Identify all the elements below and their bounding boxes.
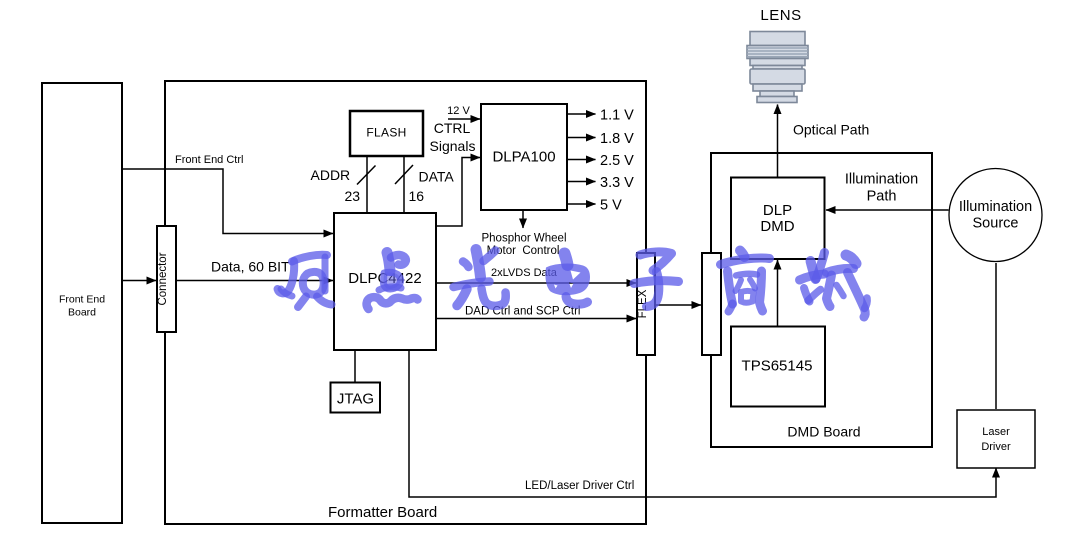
wire 3.3V output bbox=[566, 181, 596, 183]
bus slash ADDR bbox=[357, 166, 376, 185]
wire FLEX to DMD connector bbox=[655, 304, 701, 306]
svg-text:Front End: Front End bbox=[59, 294, 105, 306]
block DLP DMD bbox=[731, 178, 825, 260]
wire CTRL signals DLPC4422 to DLPA100 bbox=[436, 158, 480, 227]
svg-text:5 V: 5 V bbox=[600, 198, 622, 214]
wire LED/Laser Driver Ctrl bbox=[409, 350, 996, 497]
block Front End Board bbox=[42, 83, 122, 523]
wire JTAG bbox=[354, 350, 356, 382]
connector FLEX bbox=[637, 253, 655, 355]
svg-text:Illumination: Illumination bbox=[959, 199, 1032, 215]
block Laser Driver bbox=[957, 410, 1035, 468]
svg-text:DLPA100: DLPA100 bbox=[492, 149, 555, 166]
watermark char cheng bbox=[800, 253, 868, 318]
svg-text:Illumination: Illumination bbox=[845, 172, 918, 188]
bus slash DATA bbox=[395, 165, 413, 184]
wire DATA bus bbox=[403, 156, 405, 213]
wire 2.5V output bbox=[566, 159, 596, 161]
watermark 顶点光电子商城 bbox=[278, 250, 868, 318]
wire 1.8V output bbox=[566, 137, 596, 139]
watermark char guang bbox=[454, 250, 506, 306]
svg-text:Connector: Connector bbox=[157, 252, 169, 305]
svg-text:3.3 V: 3.3 V bbox=[600, 175, 634, 191]
svg-text:DLP: DLP bbox=[763, 202, 792, 219]
svg-text:Data, 60 BIT: Data, 60 BIT bbox=[211, 259, 290, 275]
wire Illumination Source to Laser Driver bbox=[995, 263, 997, 409]
svg-text:Path: Path bbox=[867, 189, 897, 205]
svg-text:CTRL: CTRL bbox=[434, 120, 471, 136]
svg-text:Board: Board bbox=[68, 307, 96, 319]
block Illumination Source bbox=[949, 169, 1042, 262]
svg-text:1.1 V: 1.1 V bbox=[600, 108, 634, 124]
wire ADDR bus bbox=[366, 156, 368, 213]
svg-text:TPS65145: TPS65145 bbox=[742, 358, 813, 375]
svg-text:Laser: Laser bbox=[982, 426, 1010, 438]
svg-text:Optical Path: Optical Path bbox=[793, 122, 869, 138]
wire TPS65145 to DLP DMD bbox=[777, 260, 779, 327]
watermark char dian2 bbox=[545, 254, 590, 305]
svg-text:Formatter Board: Formatter Board bbox=[328, 504, 437, 521]
watermark char dian bbox=[367, 253, 418, 310]
wire 2xLVDS Data bbox=[436, 282, 636, 284]
wire Data 60 BIT connector to DLPC4422 bbox=[176, 280, 333, 282]
svg-text:ADDR: ADDR bbox=[311, 167, 351, 183]
svg-text:Source: Source bbox=[973, 216, 1019, 232]
svg-text:Front End Ctrl: Front End Ctrl bbox=[175, 154, 243, 166]
svg-text:DATA: DATA bbox=[419, 169, 455, 185]
block Formatter Board bbox=[165, 81, 646, 524]
icon lens bbox=[747, 32, 808, 103]
connector J1 bbox=[157, 226, 176, 332]
svg-text:12 V: 12 V bbox=[447, 105, 470, 117]
block FLASH bbox=[350, 111, 423, 156]
block DLPC4422 bbox=[334, 213, 436, 350]
svg-text:Signals: Signals bbox=[430, 138, 476, 154]
svg-text:1.8 V: 1.8 V bbox=[600, 131, 634, 147]
svg-text:LED/Laser Driver Ctrl: LED/Laser Driver Ctrl bbox=[525, 480, 634, 492]
wire Illumination Path bbox=[826, 209, 949, 211]
watermark char zi bbox=[634, 252, 679, 307]
svg-text:16: 16 bbox=[409, 188, 425, 204]
wire Optical Path bbox=[777, 105, 779, 178]
wire 12V into DLPA100 bbox=[448, 118, 480, 120]
block TPS65145 bbox=[731, 327, 825, 407]
svg-text:JTAG: JTAG bbox=[337, 391, 374, 408]
svg-text:Phosphor Wheel: Phosphor Wheel bbox=[481, 233, 566, 245]
wire Phosphor Wheel Motor Control bbox=[522, 210, 524, 228]
wire Data 60 BIT into connector bbox=[122, 280, 156, 282]
svg-text:2.5 V: 2.5 V bbox=[600, 153, 634, 169]
svg-text:23: 23 bbox=[345, 188, 361, 204]
svg-text:LENS: LENS bbox=[760, 7, 801, 24]
svg-text:DMD Board: DMD Board bbox=[787, 424, 860, 440]
watermark char shang bbox=[721, 251, 770, 312]
svg-text:DMD: DMD bbox=[760, 218, 794, 235]
wire 5V output bbox=[566, 203, 596, 205]
wire Front End Ctrl bbox=[122, 169, 333, 234]
block DMD Board bbox=[711, 153, 932, 447]
svg-text:FLASH: FLASH bbox=[366, 126, 406, 140]
wire 1.1V output bbox=[566, 113, 596, 115]
block JTAG bbox=[331, 383, 381, 413]
watermark char ding bbox=[278, 255, 332, 307]
svg-text:DAD Ctrl and SCP Ctrl: DAD Ctrl and SCP Ctrl bbox=[465, 306, 580, 318]
block DLPA100 bbox=[481, 104, 567, 210]
connector DMD board bbox=[702, 253, 721, 355]
svg-text:Driver: Driver bbox=[981, 441, 1011, 453]
wire DAD Ctrl and SCP Ctrl bbox=[436, 318, 636, 320]
